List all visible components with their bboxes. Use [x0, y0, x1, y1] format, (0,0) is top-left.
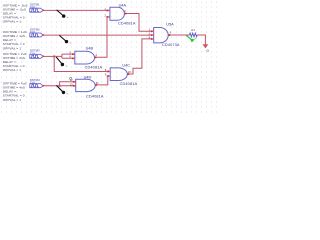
- svg-text:10: 10: [128, 70, 132, 74]
- junction at DSTM4 split: [59, 85, 61, 87]
- AND gate U5A (3-input): [149, 23, 180, 48]
- digital clock stimulus DSTM1: [30, 3, 44, 13]
- svg-text:OPPVAL = 1: OPPVAL = 1: [3, 20, 21, 24]
- wire DSTM3 branch to U4B input bracket: [54, 54, 71, 58]
- AND gate U4A: [104, 3, 135, 25]
- cursor arrow 4 on DSTM4 wire: [56, 85, 68, 94]
- digital clock stimulus DSTM2: [30, 27, 44, 37]
- wire DSTM3 to junction: [43, 55, 54, 57]
- wire U4D output to U4C pin2: [98, 76, 108, 85]
- wire DSTM3 branch down to U4C pin1: [54, 56, 107, 71]
- cursor arrow 2 on DSTM2 wire: [59, 35, 71, 43]
- svg-text:U4A: U4A: [119, 3, 127, 7]
- svg-text:OPPVAL = 1: OPPVAL = 1: [3, 98, 21, 102]
- wire DSTM4 to U4D input bracket: [43, 82, 72, 86]
- resistor R1: [189, 33, 197, 37]
- wire U4B output to U4A pin2: [98, 17, 107, 57]
- svg-text:CD4081A: CD4081A: [120, 81, 138, 86]
- svg-text:OPPVAL = 1: OPPVAL = 1: [3, 46, 21, 50]
- svg-text:R1: R1: [191, 28, 195, 32]
- svg-text:OPPVAL = 1: OPPVAL = 1: [3, 68, 21, 72]
- wire R1 to ground: [197, 35, 205, 45]
- wire U5A output to R1: [171, 34, 189, 36]
- voltage marker (green probe): [186, 35, 192, 40]
- digital clock stimulus DSTM3: [30, 49, 44, 59]
- digital clock stimulus DSTM4: [30, 78, 44, 88]
- svg-text:U5A: U5A: [166, 23, 174, 27]
- cursor arrow 3 at DSTM3 junction: [56, 57, 67, 66]
- svg-text:U4B: U4B: [86, 46, 94, 50]
- AND gate U4D: [70, 75, 104, 98]
- cursor arrow 1 on DSTM1 wire: [57, 10, 69, 18]
- stray ring marker near U4D pin1: [70, 77, 72, 79]
- wire DSTM2 to U5A pin2: [43, 34, 150, 36]
- ground 0 symbol: [203, 44, 209, 48]
- stimulus DSTM3 parameter text: [3, 52, 27, 72]
- AND gate U4B: [69, 46, 102, 69]
- stimulus DSTM2 parameter text: [3, 30, 27, 50]
- svg-text:U4D: U4D: [84, 75, 92, 79]
- stimulus DSTM1 parameter text: [3, 3, 28, 23]
- svg-text:CD4081A: CD4081A: [118, 20, 136, 25]
- wire DSTM1 to U4A pin1: [43, 9, 106, 11]
- svg-text:CD4081A: CD4081A: [85, 65, 103, 70]
- svg-text:U4C: U4C: [122, 64, 130, 68]
- svg-text:13: 13: [70, 82, 74, 86]
- wire U4C output to U5A pin8 (dogleg): [130, 39, 150, 74]
- svg-text:CD4081A: CD4081A: [86, 93, 104, 98]
- stimulus DSTM4 parameter text: [3, 82, 27, 102]
- junction at DSTM3 split: [53, 55, 55, 57]
- AND gate U4C: [105, 64, 138, 86]
- svg-text:CD4073A: CD4073A: [162, 42, 180, 47]
- wire U4A output to U5A pin1: [127, 14, 150, 32]
